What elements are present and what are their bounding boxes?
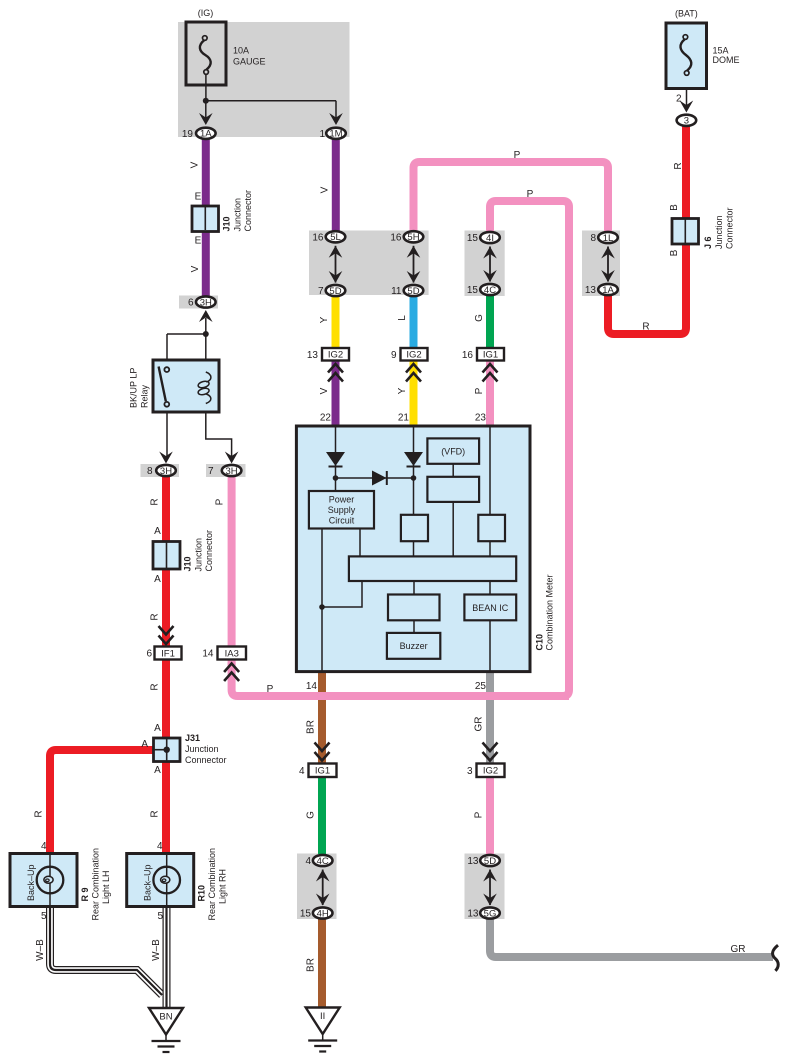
svg-text:Connector: Connector	[725, 207, 735, 249]
svg-text:3: 3	[684, 116, 689, 127]
svg-text:7: 7	[318, 286, 324, 297]
svg-text:A: A	[154, 574, 161, 585]
svg-text:L: L	[397, 315, 408, 321]
svg-text:A: A	[154, 765, 161, 776]
svg-text:Y: Y	[397, 387, 408, 394]
svg-text:Rear Combination: Rear Combination	[91, 848, 101, 921]
svg-text:15: 15	[467, 285, 479, 296]
svg-text:V: V	[190, 265, 201, 272]
svg-text:J10: J10	[183, 556, 193, 571]
svg-text:6: 6	[188, 298, 194, 309]
svg-text:1L: 1L	[603, 233, 614, 244]
svg-text:GR: GR	[474, 717, 485, 732]
svg-text:R: R	[150, 683, 161, 690]
svg-text:J 6: J 6	[703, 236, 713, 249]
svg-text:P: P	[267, 684, 274, 695]
svg-text:1A: 1A	[602, 285, 614, 296]
svg-text:5G: 5G	[484, 908, 497, 919]
svg-text:1A: 1A	[200, 129, 212, 140]
svg-text:P: P	[215, 498, 226, 505]
svg-text:C10: C10	[535, 634, 545, 651]
svg-text:(VFD): (VFD)	[441, 447, 465, 457]
svg-text:13: 13	[585, 285, 597, 296]
svg-text:J10: J10	[222, 216, 232, 231]
svg-text:22: 22	[320, 413, 332, 424]
svg-text:5H: 5H	[407, 232, 419, 243]
svg-text:16: 16	[390, 233, 402, 244]
svg-text:2: 2	[676, 94, 682, 105]
svg-text:J31: J31	[185, 733, 200, 743]
svg-text:A: A	[141, 739, 148, 750]
svg-text:Junction: Junction	[714, 215, 724, 249]
svg-text:R 9: R 9	[80, 887, 90, 901]
svg-text:4: 4	[305, 856, 311, 867]
svg-text:5D: 5D	[407, 286, 419, 297]
svg-text:Back–Up: Back–Up	[143, 864, 153, 901]
svg-text:7: 7	[208, 466, 214, 477]
svg-text:Connector: Connector	[204, 530, 214, 572]
svg-text:8: 8	[590, 233, 596, 244]
svg-text:5L: 5L	[330, 232, 341, 243]
svg-text:4I: 4I	[486, 233, 494, 244]
svg-text:5: 5	[157, 911, 163, 922]
svg-text:V: V	[320, 186, 331, 193]
svg-text:19: 19	[182, 129, 194, 140]
svg-text:A: A	[154, 526, 161, 537]
svg-text:Y: Y	[319, 316, 330, 323]
svg-text:R: R	[673, 162, 684, 169]
svg-text:Relay: Relay	[140, 384, 150, 408]
svg-text:1M: 1M	[329, 129, 342, 140]
svg-text:Back–Up: Back–Up	[26, 864, 36, 901]
svg-text:Combination Meter: Combination Meter	[545, 574, 555, 650]
svg-text:Supply: Supply	[328, 505, 356, 515]
svg-text:Connector: Connector	[243, 190, 253, 232]
svg-text:25: 25	[475, 681, 487, 692]
svg-text:R10: R10	[197, 885, 207, 902]
svg-text:4C: 4C	[317, 856, 329, 867]
svg-text:14: 14	[202, 649, 214, 660]
svg-text:E: E	[195, 236, 202, 247]
svg-text:IG1: IG1	[483, 350, 498, 361]
svg-text:R: R	[150, 810, 161, 817]
svg-text:3: 3	[467, 766, 473, 777]
svg-text:Junction: Junction	[194, 538, 204, 572]
svg-text:IG1: IG1	[315, 766, 330, 777]
svg-text:IA3: IA3	[225, 648, 239, 659]
svg-text:9: 9	[391, 350, 397, 361]
svg-text:R: R	[642, 322, 649, 333]
svg-text:13: 13	[467, 856, 479, 867]
svg-text:15: 15	[300, 909, 312, 920]
svg-text:P: P	[514, 150, 521, 161]
svg-text:5D: 5D	[484, 856, 496, 867]
svg-text:Connector: Connector	[185, 755, 227, 765]
svg-text:14: 14	[306, 681, 318, 692]
svg-text:Light RH: Light RH	[218, 869, 228, 904]
svg-text:DOME: DOME	[713, 55, 740, 65]
svg-text:W–B: W–B	[151, 939, 162, 961]
svg-text:Junction: Junction	[233, 198, 243, 232]
svg-text:15: 15	[467, 233, 479, 244]
svg-text:13: 13	[467, 909, 479, 920]
svg-text:R: R	[150, 613, 161, 620]
svg-text:BR: BR	[306, 958, 317, 972]
svg-text:15A: 15A	[713, 46, 729, 56]
svg-text:1: 1	[319, 129, 325, 140]
svg-text:10A: 10A	[233, 46, 249, 56]
svg-text:4H: 4H	[317, 908, 329, 919]
svg-text:V: V	[319, 387, 330, 394]
svg-text:8: 8	[147, 466, 153, 477]
svg-text:(IG): (IG)	[198, 8, 214, 18]
svg-text:G: G	[474, 314, 485, 322]
svg-text:5: 5	[41, 911, 47, 922]
svg-text:IF1: IF1	[161, 648, 175, 659]
svg-text:E: E	[195, 192, 202, 203]
svg-text:3H: 3H	[200, 297, 212, 308]
svg-text:BN: BN	[159, 1012, 172, 1023]
svg-text:Light LH: Light LH	[101, 870, 111, 904]
svg-text:R: R	[34, 810, 45, 817]
svg-text:Buzzer: Buzzer	[400, 641, 428, 651]
svg-text:23: 23	[475, 413, 487, 424]
svg-text:IG2: IG2	[328, 350, 343, 361]
svg-text:II: II	[320, 1011, 325, 1022]
svg-text:P: P	[474, 811, 485, 818]
svg-text:P: P	[474, 387, 485, 394]
svg-text:4: 4	[299, 766, 305, 777]
svg-text:GR: GR	[731, 944, 746, 955]
svg-text:IG2: IG2	[483, 766, 498, 777]
svg-text:4: 4	[41, 841, 47, 852]
svg-text:BEAN IC: BEAN IC	[472, 603, 509, 613]
svg-text:16: 16	[312, 233, 324, 244]
svg-text:(BAT): (BAT)	[675, 9, 698, 19]
svg-text:B: B	[669, 204, 680, 211]
svg-text:BK/UP LP: BK/UP LP	[129, 368, 139, 408]
svg-text:W–B: W–B	[35, 939, 46, 961]
svg-text:3H: 3H	[226, 466, 238, 477]
svg-text:11: 11	[391, 286, 402, 297]
svg-text:Power: Power	[329, 495, 355, 505]
svg-text:R: R	[150, 498, 161, 505]
svg-text:A: A	[154, 723, 161, 734]
svg-text:GAUGE: GAUGE	[233, 57, 266, 67]
svg-text:P: P	[527, 189, 534, 200]
svg-text:G: G	[306, 811, 317, 819]
svg-text:4C: 4C	[484, 285, 496, 296]
svg-text:4: 4	[157, 841, 163, 852]
svg-text:BR: BR	[306, 720, 317, 734]
svg-text:3H: 3H	[160, 466, 172, 477]
svg-text:5D: 5D	[329, 286, 341, 297]
svg-text:IG2: IG2	[406, 350, 421, 361]
svg-text:16: 16	[462, 350, 474, 361]
svg-text:6: 6	[146, 649, 152, 660]
svg-text:B: B	[669, 249, 680, 256]
svg-text:Junction: Junction	[185, 744, 219, 754]
svg-text:Circuit: Circuit	[329, 516, 355, 526]
svg-text:Rear Combination: Rear Combination	[207, 848, 217, 921]
svg-text:V: V	[190, 161, 201, 168]
svg-text:21: 21	[398, 413, 410, 424]
svg-text:13: 13	[307, 350, 319, 361]
